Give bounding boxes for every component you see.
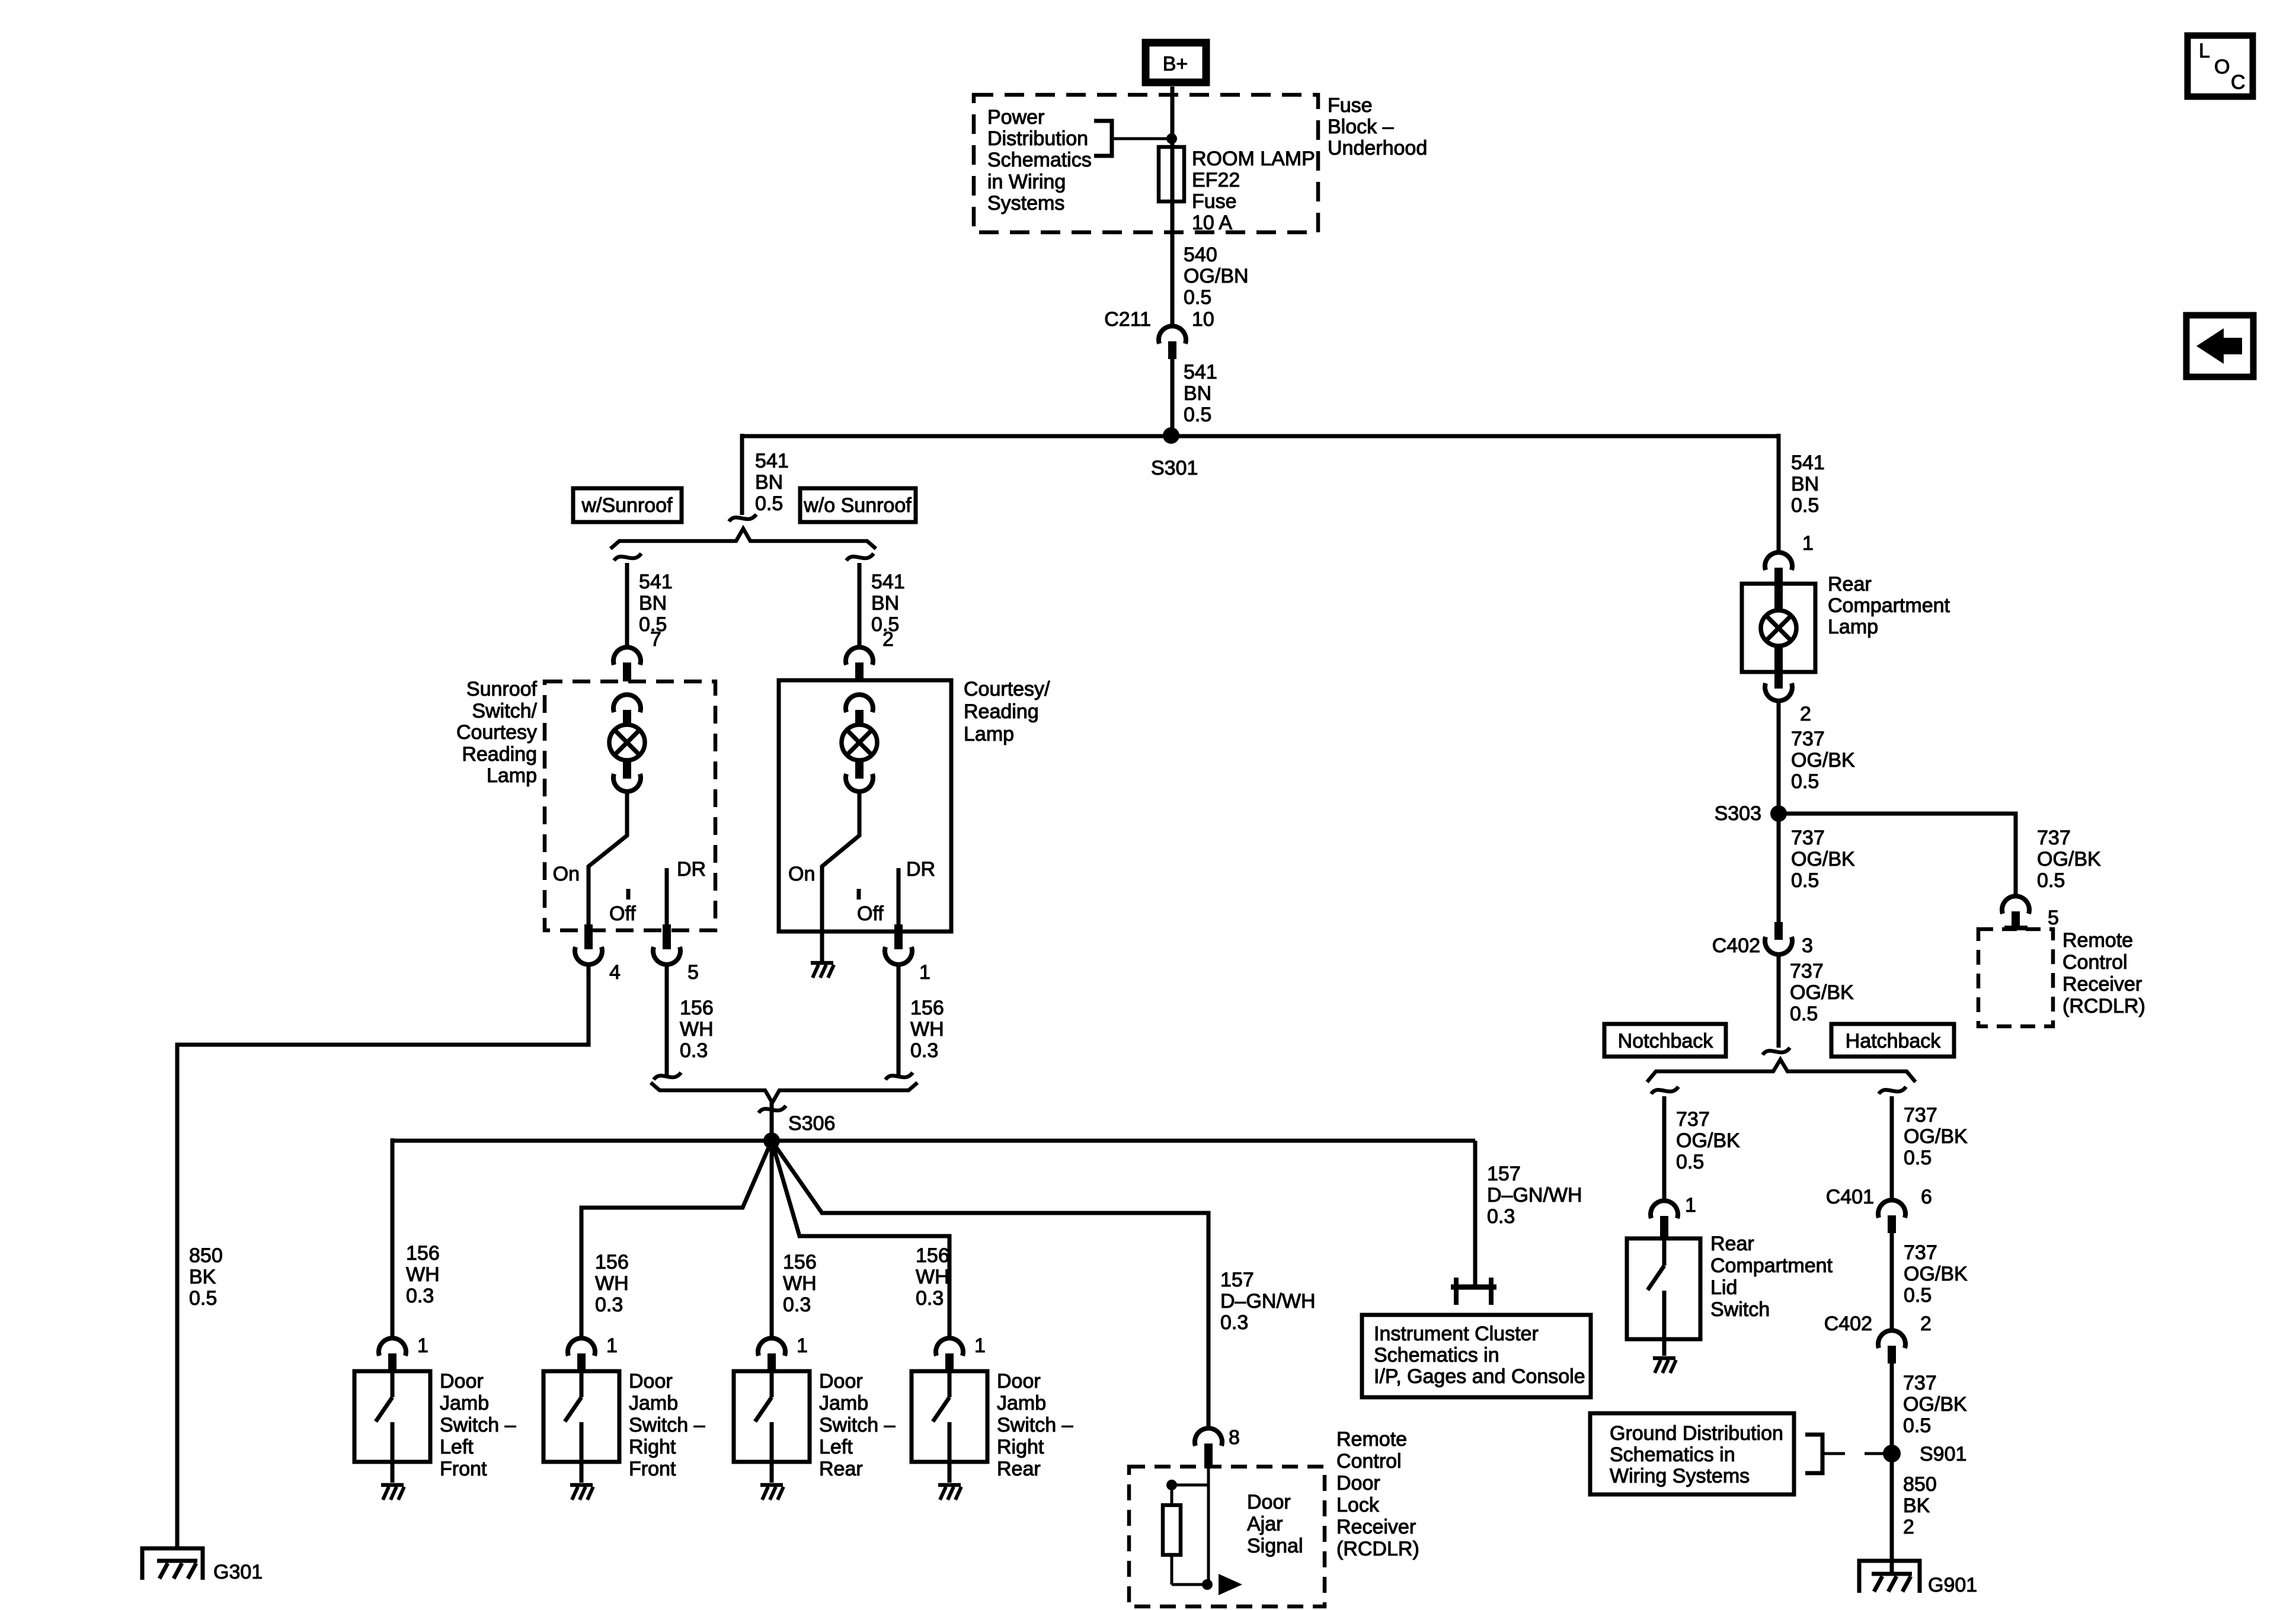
svg-text:Left: Left	[819, 1436, 853, 1458]
svg-text:156: 156	[406, 1242, 440, 1265]
wire 737 OG/BK 0.5 label RCR	[2037, 827, 2101, 892]
svg-text:541: 541	[1184, 361, 1217, 383]
wire S303 to remote control receiver	[1779, 814, 2016, 897]
svg-text:6: 6	[1921, 1186, 1932, 1208]
svg-text:0.3: 0.3	[680, 1039, 708, 1062]
svg-text:Fuse: Fuse	[1192, 190, 1237, 213]
door jamb switch - left front	[354, 1371, 430, 1483]
svg-text:OG/BK: OG/BK	[1904, 1125, 1968, 1148]
svg-text:156: 156	[680, 997, 714, 1019]
svg-text:Signal: Signal	[1247, 1535, 1303, 1557]
svg-text:Compartment: Compartment	[1710, 1254, 1833, 1277]
option box w/Sunroof	[573, 488, 682, 522]
wire B+ to fuse	[1171, 87, 1175, 326]
svg-text:541: 541	[871, 571, 905, 593]
wire courtesy pin1 down	[897, 964, 901, 1077]
svg-text:Right: Right	[997, 1436, 1044, 1458]
svg-text:BN: BN	[1791, 473, 1819, 495]
svg-text:WH: WH	[916, 1266, 949, 1288]
wire 737 OG/BK 0.5 label notchback	[1676, 1108, 1740, 1173]
wire hook w/Sunroof branch	[614, 553, 641, 561]
svg-text:Switch: Switch	[1710, 1298, 1770, 1321]
svg-text:0.5: 0.5	[189, 1287, 217, 1310]
wire hook hatchback branch	[1879, 1087, 1906, 1094]
svg-text:Wiring Systems: Wiring Systems	[1610, 1465, 1750, 1487]
svg-text:Ground Distribution: Ground Distribution	[1610, 1422, 1783, 1445]
label fuse block underhood	[1328, 94, 1427, 159]
svg-text:DR: DR	[677, 858, 706, 881]
svg-text:1: 1	[1685, 1194, 1696, 1217]
label courtesy/reading lamp	[964, 678, 1050, 745]
svg-text:541: 541	[1791, 452, 1825, 474]
svg-text:Receiver: Receiver	[2062, 973, 2142, 996]
svg-text:OG/BK: OG/BK	[1791, 749, 1855, 772]
svg-text:2: 2	[882, 628, 894, 651]
connector C401 pin 6	[1826, 1186, 1932, 1233]
wire S303 down	[1777, 814, 1781, 923]
merge brace to S306	[651, 1083, 917, 1103]
LOC legend box	[2188, 36, 2253, 97]
wire S306 diag to RCDLR	[772, 1141, 1208, 1429]
svg-text:Power: Power	[987, 106, 1044, 129]
connector to instrument cluster	[1451, 1278, 1496, 1305]
wire right branch down from S301	[1777, 434, 1781, 553]
wire 156 WH 0.3 label courtesy DR	[910, 997, 944, 1062]
svg-text:On: On	[788, 863, 815, 885]
svg-text:156: 156	[916, 1244, 949, 1267]
label door jamb switch right rear	[997, 1370, 1073, 1480]
wire 737 OG/BK 0.5 label above S901	[1903, 1372, 1967, 1437]
wire 156 WH 0.3 label left rear	[783, 1251, 817, 1316]
svg-text:540: 540	[1184, 244, 1217, 266]
label door jamb switch left rear	[819, 1370, 896, 1480]
svg-text:737: 737	[1790, 960, 1824, 982]
svg-text:Courtesy/: Courtesy/	[964, 678, 1050, 700]
wire hook notchback branch	[1651, 1087, 1678, 1094]
svg-text:C: C	[2231, 71, 2246, 94]
svg-text:Systems: Systems	[987, 192, 1064, 215]
sunroof switch blade	[589, 792, 627, 932]
svg-text:156: 156	[783, 1251, 817, 1273]
svg-text:OG/BK: OG/BK	[1903, 1393, 1967, 1416]
svg-text:I/P, Gages and Console: I/P, Gages and Console	[1374, 1365, 1585, 1388]
svg-text:0.5: 0.5	[2037, 869, 2065, 892]
svg-text:0.5: 0.5	[1791, 770, 1819, 793]
svg-text:737: 737	[1676, 1108, 1710, 1131]
svg-text:OG/BK: OG/BK	[1904, 1263, 1968, 1285]
svg-text:Courtesy: Courtesy	[456, 721, 537, 744]
svg-text:Reading: Reading	[964, 700, 1039, 723]
wire 541 BN 0.5 label	[1184, 361, 1217, 426]
svg-text:1: 1	[606, 1334, 618, 1357]
wire C211 to S301	[1171, 358, 1175, 436]
svg-text:S901: S901	[1920, 1443, 1966, 1465]
svg-text:Door: Door	[629, 1370, 673, 1393]
svg-text:8: 8	[1229, 1426, 1240, 1449]
wire S306 horizontal bus	[392, 1139, 1475, 1143]
svg-text:Switch –: Switch –	[440, 1414, 516, 1436]
option split brace	[610, 529, 876, 549]
svg-text:C401: C401	[1826, 1186, 1874, 1208]
svg-text:On: On	[553, 863, 580, 885]
svg-text:BN: BN	[871, 592, 899, 614]
svg-text:Remote: Remote	[2062, 929, 2133, 952]
splice S901	[1883, 1445, 1901, 1462]
wire 156 WH 0.3 label left front	[406, 1242, 440, 1307]
wire break squiggle	[729, 514, 756, 521]
svg-text:Switch –: Switch –	[819, 1414, 896, 1436]
wire left branch down from S301	[740, 434, 744, 515]
svg-text:Receiver: Receiver	[1336, 1516, 1416, 1538]
svg-text:2: 2	[1800, 703, 1811, 725]
wire bracket to S901 dashes	[1822, 1452, 1845, 1455]
wire hatchback branch	[1890, 1096, 1894, 1201]
svg-text:Front: Front	[629, 1458, 676, 1480]
connector pin 2 rear lamp exit	[1765, 672, 1811, 725]
svg-text:737: 737	[1791, 827, 1825, 849]
svg-text:Door: Door	[1336, 1472, 1380, 1494]
splice S306	[763, 1132, 780, 1149]
svg-text:737: 737	[1904, 1241, 1937, 1264]
splice S303	[1770, 805, 1787, 822]
arrow door ajar signal	[1219, 1574, 1242, 1595]
connector pin 2	[846, 628, 894, 681]
svg-text:BK: BK	[189, 1266, 216, 1288]
node door ajar signal	[1202, 1579, 1213, 1590]
svg-text:O: O	[2214, 56, 2230, 78]
svg-text:Block –: Block –	[1328, 116, 1394, 138]
wire 541 BN 0.5 label w/Sunroof	[639, 571, 673, 636]
svg-text:Hatchback: Hatchback	[1846, 1030, 1942, 1052]
wire break squiggle courtesy DR	[885, 1073, 913, 1080]
connector C402 pin 2	[1824, 1313, 1932, 1363]
svg-text:0.5: 0.5	[1184, 404, 1211, 426]
wire 737 OG/BK 0.5 label hatchback	[1904, 1104, 1968, 1169]
component ground right rear	[938, 1485, 961, 1500]
svg-text:7: 7	[650, 628, 661, 651]
svg-text:OG/BK: OG/BK	[1791, 848, 1855, 870]
wire 737 OG/BK 0.5 label between C401 C402	[1904, 1241, 1968, 1307]
svg-text:Underhood: Underhood	[1328, 137, 1427, 159]
option split brace right	[1647, 1060, 1916, 1082]
svg-text:Door: Door	[819, 1370, 863, 1393]
svg-text:541: 541	[755, 450, 789, 472]
wire S301 horizontal bus	[742, 434, 1779, 438]
label rear compartment lid switch	[1710, 1233, 1833, 1321]
svg-text:WH: WH	[595, 1272, 629, 1295]
wire 737 OG/BK 0.5 label above split	[1790, 960, 1854, 1025]
wire break squiggle S306 tail	[759, 1106, 786, 1113]
component ground lid switch	[1653, 1358, 1676, 1373]
svg-text:Off: Off	[609, 902, 636, 925]
wire S306 to left front switch	[391, 1138, 395, 1339]
svg-text:WH: WH	[680, 1018, 714, 1041]
ground G901	[1859, 1561, 1977, 1596]
label door jamb switch left front	[440, 1370, 516, 1480]
svg-text:in Wiring: in Wiring	[987, 171, 1066, 193]
svg-text:Rear: Rear	[997, 1458, 1041, 1480]
svg-text:156: 156	[595, 1251, 629, 1273]
option box w/o Sunroof	[800, 488, 916, 522]
svg-text:S303: S303	[1715, 802, 1761, 825]
wire break squiggle sunroof DR	[654, 1073, 681, 1080]
svg-text:0.3: 0.3	[916, 1287, 944, 1310]
svg-text:Front: Front	[440, 1458, 487, 1480]
sunroof pin 4 exit connector	[575, 924, 621, 984]
connector pin 1 right front	[568, 1334, 618, 1372]
wire S306 diag to right rear switch	[772, 1141, 949, 1339]
svg-text:2: 2	[1920, 1313, 1932, 1335]
splice S301	[1163, 427, 1179, 444]
svg-text:Off: Off	[857, 902, 884, 925]
courtesy lamp	[842, 725, 877, 792]
courtesy On wire to ground	[820, 932, 824, 961]
svg-text:Door: Door	[440, 1370, 484, 1393]
wire 850 BK 0.5 label	[189, 1244, 223, 1310]
ground distribution schematics box	[1590, 1413, 1794, 1494]
svg-text:BN: BN	[639, 592, 667, 614]
svg-text:w/o Sunroof: w/o Sunroof	[803, 494, 912, 517]
svg-text:737: 737	[1904, 1104, 1937, 1126]
svg-text:0.3: 0.3	[783, 1294, 811, 1316]
svg-text:0.3: 0.3	[910, 1039, 938, 1062]
connector pin 1 right rear	[936, 1334, 986, 1372]
fuse block underhood dashed box	[974, 95, 1318, 232]
wire break squiggle above split	[1763, 1048, 1790, 1055]
courtesy switch blade	[822, 792, 859, 932]
wire notchback branch	[1662, 1096, 1667, 1201]
courtesy lamp socket connector	[846, 694, 873, 712]
svg-text:541: 541	[639, 571, 673, 593]
svg-text:0.5: 0.5	[1903, 1414, 1931, 1437]
svg-text:G301: G301	[213, 1561, 263, 1583]
remote control receiver dashed box	[1978, 929, 2053, 1026]
svg-text:5: 5	[2048, 907, 2059, 929]
svg-text:157: 157	[1220, 1269, 1254, 1291]
svg-text:157: 157	[1487, 1163, 1521, 1185]
svg-text:C402: C402	[1824, 1313, 1872, 1335]
svg-text:OG/BK: OG/BK	[1676, 1129, 1740, 1152]
svg-text:D–GN/WH: D–GN/WH	[1487, 1184, 1582, 1206]
svg-text:Schematics in: Schematics in	[1374, 1344, 1499, 1366]
connector pin 1 left rear	[758, 1334, 808, 1372]
wire rear lamp to S303	[1777, 700, 1781, 814]
svg-text:0.5: 0.5	[1791, 494, 1819, 517]
svg-text:Lock: Lock	[1336, 1494, 1380, 1516]
svg-text:Jamb: Jamb	[819, 1392, 868, 1414]
rear compartment lamp	[1761, 585, 1796, 671]
svg-text:3: 3	[1802, 934, 1813, 957]
svg-text:Sunroof: Sunroof	[466, 678, 538, 700]
label remote control door lock receiver	[1336, 1428, 1419, 1560]
wire S306 to left rear switch	[770, 1141, 774, 1339]
svg-text:OG/BK: OG/BK	[2037, 848, 2101, 870]
svg-text:Compartment: Compartment	[1828, 594, 1950, 617]
svg-text:G901: G901	[1928, 1574, 1977, 1596]
svg-text:Switch/: Switch/	[472, 700, 537, 722]
svg-text:Distribution: Distribution	[987, 127, 1088, 150]
wire 156 WH 0.3 label right rear	[916, 1244, 949, 1310]
svg-text:Jamb: Jamb	[997, 1392, 1046, 1414]
connector pin 8 RCDLR	[1195, 1426, 1240, 1468]
wire pin5 down	[665, 964, 669, 1077]
svg-text:D–GN/WH: D–GN/WH	[1220, 1290, 1316, 1313]
wire w/Sunroof branch	[625, 563, 629, 648]
svg-text:Instrument Cluster: Instrument Cluster	[1374, 1323, 1539, 1345]
svg-text:Notchback: Notchback	[1618, 1030, 1714, 1052]
svg-text:Left: Left	[440, 1436, 474, 1458]
svg-text:Lamp: Lamp	[964, 723, 1014, 745]
svg-text:Schematics in: Schematics in	[1610, 1443, 1735, 1466]
power feed B+	[1146, 43, 1206, 82]
bracket to power distribution note	[1094, 121, 1112, 156]
svg-text:Jamb: Jamb	[440, 1392, 489, 1414]
wire 156 WH 0.3 label right front	[595, 1251, 629, 1316]
svg-text:WH: WH	[910, 1018, 944, 1041]
svg-text:10: 10	[1192, 308, 1214, 331]
wire pin4 to ground run	[177, 964, 589, 1547]
node resistor top	[1166, 1480, 1177, 1490]
component ground right front	[570, 1485, 593, 1500]
wire 541 BN 0.5 label left branch	[755, 450, 789, 515]
rear compartment lamp box	[1742, 584, 1815, 672]
label door ajar signal	[1247, 1491, 1303, 1557]
wire inside RCDLR	[1207, 1467, 1210, 1585]
svg-text:C402: C402	[1712, 934, 1760, 957]
svg-text:1: 1	[919, 961, 930, 984]
svg-text:Control: Control	[2062, 951, 2128, 974]
wire brace tail	[770, 1101, 774, 1140]
svg-text:OG/BN: OG/BN	[1184, 265, 1249, 287]
svg-text:737: 737	[2037, 827, 2071, 849]
wire 156 WH 0.3 label sunroof DR	[680, 997, 714, 1062]
wire C401 to C402	[1890, 1232, 1894, 1331]
wire resistor branch top	[1172, 1484, 1208, 1487]
svg-text:0.5: 0.5	[1791, 869, 1819, 892]
svg-text:0.5: 0.5	[755, 492, 783, 515]
svg-text:1: 1	[1802, 532, 1814, 555]
svg-text:0.5: 0.5	[1790, 1003, 1818, 1025]
svg-text:Rear: Rear	[1828, 573, 1872, 596]
sunroof lamp socket connector	[613, 694, 641, 712]
svg-text:Lid: Lid	[1710, 1276, 1737, 1299]
wire bracket to node	[1112, 137, 1170, 140]
connector pin 7	[613, 628, 661, 681]
svg-text:S306: S306	[788, 1112, 835, 1135]
svg-text:737: 737	[1791, 728, 1825, 750]
wire 737 OG/BK 0.5 label below S303	[1791, 827, 1855, 892]
wire S306 to instrument cluster	[1473, 1141, 1478, 1285]
bracket to ground distribution note	[1805, 1435, 1822, 1473]
svg-text:BK: BK	[1903, 1494, 1930, 1517]
svg-text:OG/BK: OG/BK	[1790, 981, 1854, 1004]
ground G301	[142, 1548, 263, 1583]
label rear compartment lamp	[1828, 573, 1950, 638]
svg-text:BN: BN	[755, 471, 783, 494]
svg-text:C211: C211	[1104, 308, 1151, 331]
node on B+ feed	[1166, 133, 1177, 144]
svg-text:2: 2	[1903, 1516, 1914, 1538]
svg-text:Switch –: Switch –	[997, 1414, 1073, 1436]
svg-text:S301: S301	[1151, 457, 1198, 479]
svg-text:EF22: EF22	[1192, 169, 1240, 191]
svg-text:Switch –: Switch –	[629, 1414, 705, 1436]
svg-text:4: 4	[609, 961, 621, 984]
wire 157 D-GN/WH 0.3 label RCDLR	[1220, 1269, 1316, 1334]
svg-text:0.5: 0.5	[1904, 1147, 1932, 1169]
svg-text:156: 156	[910, 997, 944, 1019]
component ground left rear	[760, 1485, 784, 1500]
courtesy pin 1 exit connector	[885, 924, 930, 984]
navigation arrow box	[2186, 315, 2253, 377]
svg-text:850: 850	[189, 1244, 223, 1267]
svg-text:Remote: Remote	[1336, 1428, 1407, 1451]
wire 540 OG/BN 0.5 label	[1184, 244, 1249, 309]
svg-text:WH: WH	[406, 1263, 440, 1286]
svg-text:Ajar: Ajar	[1247, 1513, 1283, 1535]
label Off courtesy with tick	[857, 889, 861, 900]
option box Notchback	[1604, 1024, 1726, 1057]
note: power distribution schematics	[987, 106, 1092, 215]
svg-text:850: 850	[1903, 1473, 1937, 1496]
rear compartment lid switch box	[1627, 1238, 1700, 1356]
svg-text:(RCDLR): (RCDLR)	[2062, 995, 2145, 1017]
door jamb switch - left rear	[734, 1371, 810, 1483]
resistor door ajar	[1163, 1485, 1207, 1585]
wire C402 to split	[1777, 954, 1781, 1048]
svg-text:(RCDLR): (RCDLR)	[1336, 1538, 1419, 1560]
svg-text:Control: Control	[1336, 1450, 1402, 1473]
svg-text:DR: DR	[906, 858, 935, 881]
svg-text:10 A: 10 A	[1192, 212, 1232, 234]
svg-text:Door: Door	[1247, 1491, 1291, 1513]
wire w/o Sunroof branch	[858, 563, 862, 648]
svg-text:737: 737	[1903, 1372, 1937, 1394]
svg-text:w/Sunroof: w/Sunroof	[581, 494, 673, 517]
wire C402 to G901	[1890, 1362, 1894, 1573]
connector C402 pin 3	[1712, 922, 1813, 957]
svg-text:Lamp: Lamp	[1828, 616, 1878, 638]
connector pin 1 rear lamp	[1765, 532, 1814, 585]
svg-text:BN: BN	[1184, 382, 1211, 405]
svg-text:0.5: 0.5	[1676, 1151, 1704, 1173]
svg-text:Fuse: Fuse	[1328, 94, 1373, 117]
wire 541 BN 0.5 label right branch	[1791, 452, 1825, 517]
svg-text:WH: WH	[783, 1272, 817, 1295]
courtesy reading lamp box	[779, 680, 951, 932]
courtesy DR contact	[897, 868, 901, 932]
door jamb switch - right front	[543, 1371, 619, 1483]
component ground courtesy lamp	[811, 963, 834, 978]
wire 737 OG/BK 0.5 label above S303	[1791, 728, 1855, 793]
svg-text:Lamp: Lamp	[487, 764, 537, 787]
svg-text:0.3: 0.3	[595, 1294, 623, 1316]
svg-text:1: 1	[797, 1334, 808, 1357]
sunroof DR contact	[665, 868, 669, 932]
svg-text:5: 5	[687, 961, 699, 984]
svg-text:0.3: 0.3	[1487, 1205, 1515, 1228]
component ground left front	[381, 1485, 404, 1500]
instrument cluster box	[1362, 1315, 1591, 1397]
svg-text:ROOM LAMP: ROOM LAMP	[1192, 148, 1315, 170]
svg-text:L: L	[2199, 40, 2210, 62]
svg-text:Door: Door	[997, 1370, 1041, 1393]
svg-text:0.5: 0.5	[1184, 286, 1211, 309]
svg-text:Rear: Rear	[1710, 1233, 1754, 1255]
svg-text:B+: B+	[1163, 53, 1188, 75]
sunroof pin 5 exit connector	[653, 924, 699, 984]
fuse EF22 ROOM LAMP 10A	[1159, 147, 1184, 201]
